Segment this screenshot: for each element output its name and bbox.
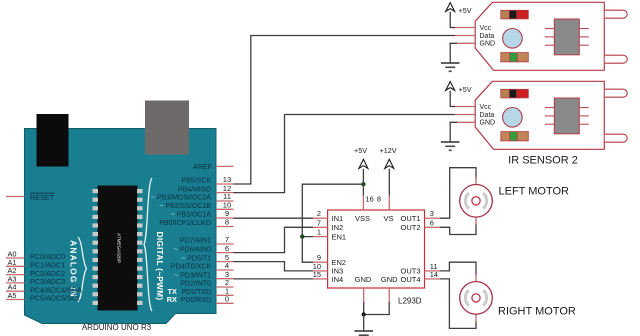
- IR sensor 1 receiver LED: [605, 55, 627, 63]
- pin 10 (PB2/SS/OC1B): [159, 201, 233, 211]
- wire OUT2 to left motor -: [440, 224, 476, 235]
- svg-text:~ PD6/AIN0: ~ PD6/AIN0: [174, 246, 211, 253]
- svg-text:PD1/TXD: PD1/TXD: [181, 289, 211, 296]
- pin AREF: [193, 162, 234, 171]
- svg-text:ATMEGA328P: ATMEGA328P: [117, 233, 122, 263]
- pin 1 (PD1/TXD): [168, 287, 234, 297]
- pin 4 (PD4/T0/XCK): [171, 261, 234, 271]
- IR sensor 2 indicator LED block: [501, 89, 529, 98]
- L293D pin 16 (VSS): [363, 169, 373, 210]
- svg-text:~ PB1/OC1A: ~ PB1/OC1A: [171, 212, 212, 219]
- svg-text:14: 14: [430, 270, 438, 279]
- IR sensor 1 indicator LED block: [501, 10, 529, 19]
- USB connector: [37, 114, 69, 167]
- pin 0 (PD0/RXD): [167, 295, 234, 305]
- L293D pin 11: [425, 262, 441, 271]
- left motor M1: [460, 177, 493, 225]
- svg-text:+5V: +5V: [354, 146, 367, 155]
- svg-text:PD2/INT0: PD2/INT0: [180, 281, 211, 288]
- svg-text:6: 6: [430, 218, 434, 227]
- pin 2 (PD2/INT0): [180, 278, 233, 288]
- IR sensor 2 receiver LED: [605, 134, 627, 142]
- svg-text:Vcc: Vcc: [480, 104, 492, 111]
- DC power jack: [145, 101, 189, 155]
- L293D pin 14: [425, 270, 441, 279]
- IR sensor 2 body: [475, 81, 604, 149]
- svg-text:3: 3: [430, 209, 434, 218]
- svg-text:A5: A5: [8, 291, 17, 300]
- L293D pin 7: [313, 218, 328, 227]
- IR sensor 1 emitter LED: [605, 10, 627, 18]
- svg-text:1: 1: [317, 228, 321, 237]
- svg-text:OUT1: OUT1: [400, 214, 420, 223]
- L293D pin 4/5 (GND left): [363, 288, 365, 315]
- +5V power symbol (L293D): [354, 146, 368, 169]
- pin 9 (PB1/OC1A): [171, 209, 234, 219]
- IR sensor 1 potentiometer: [503, 29, 523, 49]
- wire OUT1 to left motor +: [440, 168, 476, 219]
- junction EN to VSS +5V node: [361, 182, 365, 186]
- svg-text:DIGITAL (~PWM): DIGITAL (~PWM): [155, 232, 164, 301]
- svg-text:GND: GND: [480, 120, 496, 127]
- right motor M2: [460, 274, 493, 322]
- pin A4 (PC4/ADC4/SDA): [6, 283, 82, 295]
- pin 8 (PB0/ICP1/CLKO): [159, 218, 233, 228]
- IR sensor 1 bottom LED block: [501, 53, 529, 62]
- svg-text:6: 6: [225, 244, 229, 253]
- svg-text:Data: Data: [480, 33, 495, 40]
- wire OUT4 to right motor -: [440, 279, 476, 329]
- Arduino UNO R3 board: [25, 129, 217, 324]
- IR sensor 2 emitter LED: [605, 89, 627, 97]
- label LEFT MOTOR: [499, 186, 570, 198]
- svg-text:+12V: +12V: [380, 146, 397, 155]
- svg-text:PD7/AIN1: PD7/AIN1: [180, 238, 211, 245]
- L293D pin 3: [425, 209, 441, 218]
- svg-text:~ PD3/INT1: ~ PD3/INT1: [174, 272, 211, 279]
- svg-text:RESET: RESET: [30, 193, 55, 202]
- digital pins brace: [144, 178, 152, 311]
- ATMEGA328P IC U1: [93, 186, 143, 311]
- wire OUT3 to right motor +: [440, 262, 476, 275]
- wire D5 to L293D IN3: [234, 262, 314, 271]
- wire EN1/EN2 to +5V: [302, 184, 363, 262]
- svg-text:Data: Data: [480, 112, 495, 119]
- L293D U2 body: [328, 210, 425, 288]
- svg-text:EN1: EN1: [332, 232, 347, 241]
- pin 5 (PD5/T1): [181, 253, 233, 263]
- svg-text:AREF: AREF: [193, 162, 213, 171]
- svg-text:GND: GND: [355, 275, 372, 284]
- wire D13 to IR sensor 1 Data: [234, 36, 456, 185]
- pin 6 (PD6/AIN0): [174, 244, 234, 254]
- svg-text:L293D: L293D: [398, 297, 422, 306]
- wire D3 to L293D IN4: [234, 278, 314, 280]
- pin 13 (PB5/SCK): [181, 175, 233, 185]
- svg-text:9: 9: [317, 253, 321, 262]
- pin RESET: [6, 193, 55, 202]
- IR sensor 2 pin stubs: [452, 107, 475, 123]
- label ANALOG IN: [69, 240, 79, 298]
- pin 12 (PB4/MISO): [178, 184, 234, 194]
- IR sensor 2 potentiometer: [503, 108, 523, 128]
- pin A1 (PC1/ADC1): [6, 258, 65, 270]
- L293D pin 2: [313, 209, 328, 218]
- svg-text:EN2: EN2: [332, 258, 347, 267]
- svg-text:8: 8: [377, 195, 381, 204]
- svg-text:7: 7: [317, 218, 321, 227]
- pin 3 (PD3/INT1): [174, 270, 233, 280]
- +5V power symbol (IR sensor 1): [446, 3, 472, 28]
- svg-text:ARDUINO UNO R3: ARDUINO UNO R3: [82, 323, 152, 332]
- label RIGHT MOTOR: [498, 306, 576, 318]
- svg-text:GND: GND: [381, 275, 398, 284]
- IR sensor 2 bottom LED block: [501, 132, 529, 141]
- svg-text:PD4/T0/XCK: PD4/T0/XCK: [171, 264, 211, 271]
- svg-text:+5V: +5V: [459, 85, 472, 94]
- svg-text:IN2: IN2: [332, 223, 344, 232]
- L293D pin 6: [425, 218, 441, 227]
- junction EN1/EN2 node: [300, 234, 304, 238]
- IR sensor 1 pin stubs: [452, 28, 475, 44]
- svg-text:2: 2: [317, 209, 321, 218]
- label IR SENSOR 2: [508, 155, 578, 167]
- svg-text:VS: VS: [383, 214, 393, 223]
- svg-text:~ PB3/MOSI/OC2A: ~ PB3/MOSI/OC2A: [151, 195, 211, 202]
- svg-text:RX: RX: [167, 295, 177, 304]
- svg-text:15: 15: [313, 270, 321, 279]
- svg-text:PB0/ICP1/CLKO: PB0/ICP1/CLKO: [159, 220, 211, 227]
- IR sensor 1 body: [475, 2, 604, 70]
- svg-text:10: 10: [223, 201, 231, 210]
- +5V power symbol (IR sensor 2): [446, 82, 472, 107]
- svg-text:Vcc: Vcc: [480, 25, 492, 32]
- svg-text:RIGHT MOTOR: RIGHT MOTOR: [498, 306, 576, 318]
- svg-text:~ PD5/T1: ~ PD5/T1: [181, 255, 211, 262]
- ground symbol (IR sensor 1): [441, 43, 460, 71]
- pin 11 (PB3/MOSI/OC2A): [151, 192, 234, 202]
- ground symbol (L293D): [354, 315, 373, 336]
- L293D pin 15: [313, 270, 328, 279]
- label L293D: [398, 297, 422, 306]
- svg-text:4: 4: [225, 261, 229, 270]
- svg-text:PB4/MISO: PB4/MISO: [178, 186, 212, 193]
- svg-text:PC5/ADC5/SCL: PC5/ADC5/SCL: [30, 294, 81, 303]
- svg-text:OUT2: OUT2: [400, 223, 420, 232]
- +12V power symbol (L293D): [380, 146, 397, 169]
- svg-text:16: 16: [366, 195, 374, 204]
- analog pins brace: [78, 237, 87, 302]
- label ARDUINO UNO R3: [82, 323, 152, 332]
- L293D pin 12/13 (GND right): [364, 288, 390, 315]
- L293D pin 8 (VS): [377, 169, 389, 210]
- L293D pin 9: [313, 253, 328, 262]
- pin A3 (PC3/ADC3): [6, 274, 65, 286]
- svg-text:VSS: VSS: [355, 214, 370, 223]
- wire D6 to L293D IN2: [234, 227, 314, 252]
- wire D12 to IR sensor 2 Data: [234, 115, 456, 193]
- L293D pin 1: [313, 228, 328, 237]
- svg-text:GND: GND: [480, 41, 496, 48]
- svg-text:PD0/RXD: PD0/RXD: [181, 297, 211, 304]
- svg-text:PB5/SCK: PB5/SCK: [181, 178, 211, 185]
- svg-text:OUT4: OUT4: [400, 275, 420, 284]
- ground symbol (IR sensor 2): [441, 122, 460, 150]
- junction GND node: [362, 312, 366, 316]
- pin 7 (PD7/AIN1): [180, 235, 234, 245]
- svg-text:IN4: IN4: [332, 275, 344, 284]
- IR sensor 2 comparator IC: [545, 98, 589, 134]
- svg-text:0: 0: [225, 295, 229, 304]
- label DIGITAL (~PWM): [155, 232, 164, 301]
- svg-text:+5V: +5V: [459, 6, 472, 15]
- svg-text:~ PB2/SS/OC1B: ~ PB2/SS/OC1B: [159, 203, 211, 210]
- L293D pin 10: [313, 262, 328, 271]
- svg-text:IN1: IN1: [332, 214, 344, 223]
- svg-text:LEFT MOTOR: LEFT MOTOR: [499, 186, 570, 198]
- svg-text:IR SENSOR 2: IR SENSOR 2: [508, 155, 578, 167]
- wire D9 to L293D IN1: [234, 217, 314, 219]
- svg-text:8: 8: [225, 218, 229, 227]
- pin A0 (PC0/ADC0): [6, 250, 65, 262]
- IR sensor 1 comparator IC: [545, 19, 589, 55]
- pin A5 (PC5/ADC5/SCL): [6, 291, 81, 303]
- pin A2 (PC2/ADC2): [6, 266, 65, 278]
